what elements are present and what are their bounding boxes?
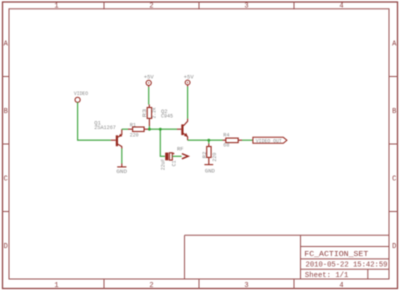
Q1 emitter arrow [118,134,122,137]
svg-text:68: 68 [223,143,229,149]
frame column labels top [54,2,343,10]
svg-text:220: 220 [212,153,218,162]
R1 right pin stub [144,128,149,130]
Q2 emitter arrow [184,133,188,137]
svg-text:1: 1 [54,282,58,290]
wire Q2 emitter to junction3 and R4 [188,139,223,141]
junction node 3 [207,139,210,142]
frame row ticks right [389,77,398,212]
svg-text:+5V: +5V [184,74,194,80]
svg-text:RF: RF [177,146,184,152]
wire Q1 collector down to GND [121,149,123,164]
frame row labels left [4,41,9,252]
resistor R3 [147,108,151,119]
R3 top pin stub [148,105,150,108]
R4 left pin stub [223,139,226,141]
junction node 2 [159,128,162,131]
svg-text:2: 2 [149,282,153,290]
R4 right pin stub [238,139,242,141]
Q2 base pin stub [177,128,181,130]
R2 bottom pin stub [208,157,210,164]
svg-text:D: D [4,243,8,251]
svg-text:C: C [4,176,8,184]
junction node at R1/R3 [148,128,151,131]
svg-text:B: B [392,108,396,116]
svg-text:C: C [392,176,396,184]
node VIDEO pin circle [75,97,80,102]
wire VIDEO down and to Q1 base [78,102,111,140]
svg-text:2: 2 [149,2,153,10]
wire Q1 emitter to R1 [122,128,128,130]
svg-text:2010-05-22 15:42:59: 2010-05-22 15:42:59 [306,262,388,270]
wire Q2 collector to +5V2 [187,87,189,119]
svg-text:+5V: +5V [144,75,154,81]
svg-text:2SA1267: 2SA1267 [94,125,116,131]
frame row ticks left [3,77,10,212]
wire R3 to node [148,126,150,129]
svg-text:C945: C945 [161,113,173,119]
supply +5V symbol 1 [146,80,151,87]
transistor Q1 (PNP 2SA1267) [117,129,122,148]
svg-text:Sheet: 1/1: Sheet: 1/1 [305,272,349,280]
wire +5V1 down to R3 [148,87,150,105]
frame column ticks top [104,2,294,9]
C1 right plate [169,153,172,160]
svg-text:R1: R1 [130,123,136,129]
svg-text:B: B [4,108,8,116]
R2 top pin stub [208,144,210,147]
svg-text:2.2k: 2.2k [151,107,157,118]
svg-text:GND: GND [116,169,127,175]
svg-text:VIDEO OUT: VIDEO OUT [256,138,282,144]
svg-text:C1: C1 [172,160,178,166]
title block box [185,235,390,279]
svg-text:D: D [392,243,396,251]
capacitor C1 22uF polarized: left plate [165,153,168,161]
supply +5V symbol 2 [185,80,190,86]
ground GND1 under Q1 [117,164,126,167]
C1 plus mark [173,153,175,155]
svg-text:R4: R4 [223,133,229,139]
svg-text:4: 4 [339,282,343,290]
Q1 base pin stub [111,139,116,141]
resistor R2 [207,147,211,158]
wire node to node2 to Q2 base [149,128,177,130]
R1 left pin stub [128,128,133,130]
wire node2 down to C1 [160,129,165,156]
svg-text:22uF: 22uF [161,159,167,171]
svg-text:GND: GND [205,169,215,175]
VIDEO OUT flag [253,137,287,143]
RF output arrow [182,154,188,159]
resistor R1 [133,127,145,132]
transistor Q2 (NPN C945) [182,119,187,141]
svg-text:3: 3 [244,282,248,290]
wire R4 to VIDEO OUT flag [242,139,253,141]
svg-text:3: 3 [244,2,248,10]
svg-text:R3: R3 [142,109,148,118]
svg-text:VIDEO: VIDEO [74,91,88,97]
svg-text:FC_ACTION_SET: FC_ACTION_SET [304,251,369,259]
svg-text:R2: R2 [202,152,208,159]
resistor R4 [226,138,238,143]
svg-text:1: 1 [54,2,58,10]
wire junction3 down to R2 [208,140,210,143]
frame row labels right [392,41,397,252]
ground GND2 under R2 [204,164,213,166]
frame column labels bottom [54,282,343,290]
wire C1 to RF arrow [172,155,181,157]
frame column ticks bottom [104,279,294,289]
R3 bottom pin stub [148,118,150,126]
svg-text:220: 220 [130,132,139,138]
svg-text:4: 4 [339,2,343,10]
